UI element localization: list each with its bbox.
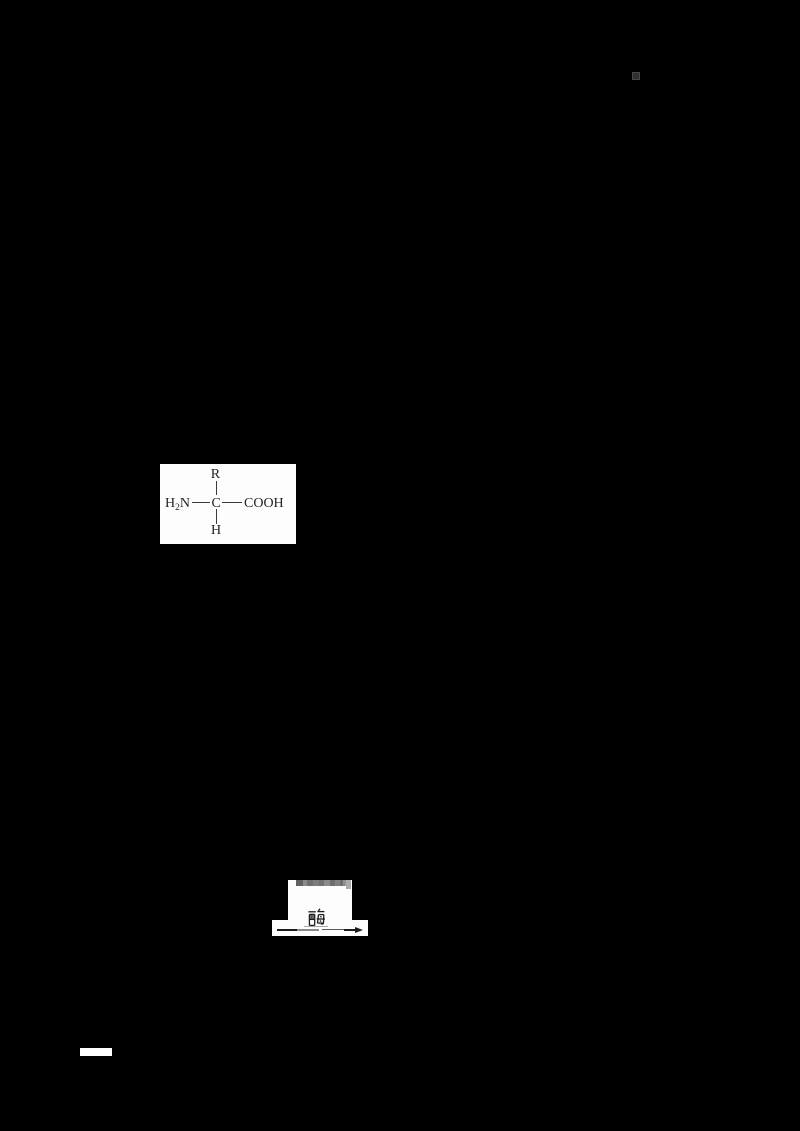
gray watermark strip bbox=[295, 880, 297, 886]
bond C-COOH horizontal bbox=[222, 502, 242, 503]
arrow line segment 3 bbox=[322, 929, 344, 930]
arrow line segment 2 bbox=[297, 929, 320, 931]
enzyme reaction panel (T shape) bbox=[272, 880, 368, 937]
white wide block bbox=[272, 920, 368, 936]
label C bbox=[212, 497, 221, 511]
arrow line segment 4 + head bbox=[344, 929, 355, 931]
bond R-C vertical bbox=[216, 481, 217, 495]
bond C-H vertical bbox=[216, 509, 217, 524]
small white bar bottom-left bbox=[80, 1048, 112, 1056]
amino acid structure panel bbox=[160, 464, 296, 544]
gray square marker top-right bbox=[632, 72, 640, 80]
label H2N bbox=[165, 497, 190, 515]
label COOH bbox=[244, 497, 284, 511]
arrow line segment 1 bbox=[277, 929, 296, 931]
hairline under enzyme bbox=[304, 925, 328, 928]
white tall block bbox=[288, 880, 353, 937]
label H bbox=[211, 524, 221, 538]
enzyme character (SVG approximation of CJK glyph) bbox=[308, 908, 325, 927]
bond N-C horizontal bbox=[192, 502, 210, 503]
label R bbox=[211, 468, 220, 482]
